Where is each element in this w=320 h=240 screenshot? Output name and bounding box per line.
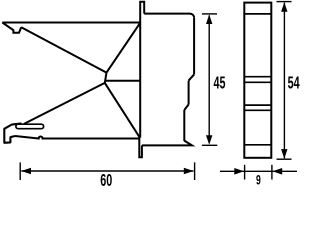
left beak notch (2, 23, 21, 33)
mid horizontal line (105, 80, 140, 82)
svg-text:9: 9 (256, 172, 261, 186)
dim45 bottom tick (202, 144, 217, 146)
jog (184, 105, 188, 111)
side view (right figure) (244, 3, 271, 158)
dim54 arrow down (281, 149, 287, 159)
right wall lower (183, 110, 185, 141)
top shelf with rounded corner (144, 14, 194, 18)
steep diagonal from hinge point to top right corner (107, 23, 141, 73)
dim9 right tick (271, 165, 273, 180)
dim54 bottom tick (277, 158, 292, 160)
dim9 arrow pointing left (273, 168, 283, 175)
right wall middle (188, 81, 190, 105)
dim60 arrow right (184, 168, 194, 175)
dim60 line (21, 170, 193, 172)
dim45 line (208, 16, 210, 143)
svg-text:60: 60 (100, 172, 112, 186)
dim9 line (220, 170, 297, 172)
dimension 9 (220, 165, 297, 180)
main front vertical (139, 1, 141, 137)
diagonal from hinge to bottom right corner (105, 83, 140, 137)
dim54 top tick (277, 1, 292, 3)
right wall upper (193, 18, 195, 75)
side view divider chamfer pair (244, 77, 271, 83)
foot flare and foot line (142, 141, 192, 146)
release tab (139, 137, 142, 157)
dim45 arrow down (206, 135, 212, 145)
dim9 left tick (244, 165, 246, 180)
dim45 arrow up (206, 14, 212, 24)
dim60 right tick (194, 162, 196, 180)
dimension 54 (277, 2, 292, 160)
top edge of sloped front panel (2, 22, 140, 24)
bottom line with detent bump (15, 136, 139, 139)
dimension 45 (202, 14, 217, 145)
dim9 arrow pointing right (234, 168, 244, 175)
top stub (139, 2, 144, 14)
svg-text:45: 45 (214, 74, 226, 93)
rail claw outline (4, 123, 21, 142)
dim60 left tick (19, 162, 21, 180)
dimension 60 (20, 162, 194, 180)
side view divider top (244, 13, 271, 15)
dim60 arrow left (21, 168, 31, 175)
screw slot bar (16, 124, 44, 129)
chamfer (189, 74, 195, 80)
dim54 arrow up (281, 2, 287, 12)
svg-text:54: 54 (288, 74, 300, 93)
side view divider jog pair (244, 105, 271, 110)
side view divider bottom (244, 144, 271, 146)
hinge segment J1-J2 (105, 73, 107, 83)
long diagonal from beak to hinge point (21, 27, 106, 72)
dim54 line (283, 3, 285, 159)
diagonal from hinge to slot bar (24, 83, 105, 124)
dim45 top tick (202, 13, 217, 15)
side view outline (244, 3, 271, 158)
